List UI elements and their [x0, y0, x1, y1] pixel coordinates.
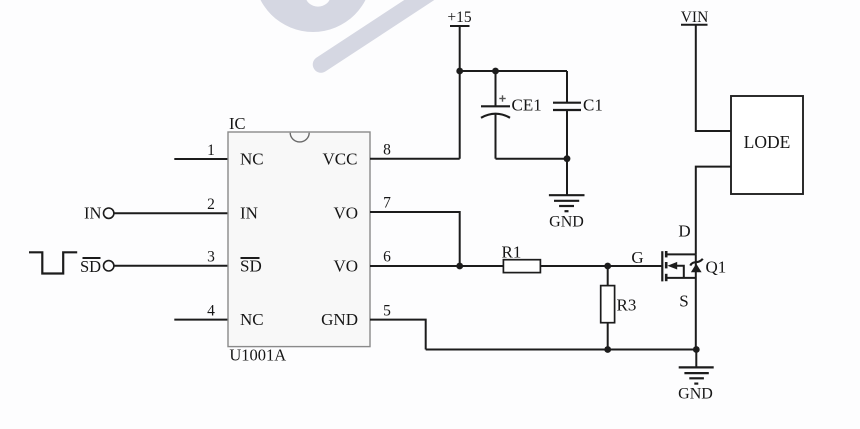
- value label R3: [617, 296, 637, 315]
- node junction pins 6-7: [456, 263, 463, 270]
- wire SD to pin 3: [114, 265, 228, 267]
- label D: [678, 222, 690, 241]
- wire +15 vertical: [459, 26, 461, 159]
- svg-text:IC: IC: [229, 114, 246, 133]
- svg-text:IN: IN: [240, 204, 258, 223]
- svg-text:GND: GND: [549, 214, 584, 231]
- pin label VO (pin 7): [333, 204, 358, 223]
- svg-text:U1001A: U1001A: [229, 346, 286, 365]
- capacitor C1: [553, 71, 581, 195]
- label SD (shutdown terminal, with overline): [80, 257, 101, 276]
- svg-text:IN: IN: [84, 204, 101, 223]
- svg-text:R3: R3: [617, 296, 637, 315]
- value label C1: [583, 96, 603, 115]
- node junction C1 bottom: [564, 155, 571, 162]
- pin number 6: [383, 249, 391, 266]
- pin label NC (pin 1): [240, 150, 264, 169]
- pin number 4: [207, 303, 215, 320]
- pin number 2: [207, 196, 215, 213]
- label LODE: [744, 132, 791, 152]
- IC U1001A body: [228, 132, 370, 347]
- ground symbol (bottom right): [678, 350, 714, 403]
- svg-text:Q1: Q1: [706, 258, 727, 277]
- resistor R3: [601, 266, 615, 350]
- wire pin 5 GND: [370, 320, 426, 350]
- pin number 1: [207, 142, 215, 159]
- resistor R1: [503, 260, 540, 273]
- label Q1: [706, 258, 727, 277]
- svg-text:D: D: [678, 222, 690, 241]
- svg-text:SD: SD: [80, 257, 101, 276]
- pin label VCC (pin 8): [323, 150, 358, 169]
- pin number 5: [383, 303, 391, 320]
- svg-text:VO: VO: [333, 257, 358, 276]
- svg-text:+15: +15: [447, 9, 471, 26]
- value label CE1: [512, 96, 542, 115]
- pin number 3: [207, 249, 215, 266]
- wire R1 to gate: [540, 265, 662, 267]
- wire pin 1 (NC): [174, 158, 228, 160]
- node junction at +15 branch: [456, 68, 463, 75]
- pin label VO (pin 6): [333, 257, 358, 276]
- node junction source-ground: [693, 346, 700, 353]
- svg-text:VCC: VCC: [323, 150, 358, 169]
- svg-text:2: 2: [207, 196, 215, 213]
- node junction CE1 top: [492, 68, 499, 75]
- svg-text:7: 7: [383, 195, 391, 212]
- svg-text:8: 8: [383, 142, 391, 159]
- svg-text:G: G: [631, 248, 643, 267]
- svg-text:CE1: CE1: [512, 96, 542, 115]
- label U1001A: [229, 346, 286, 365]
- svg-text:LODE: LODE: [744, 132, 791, 152]
- wire VIN to load: [696, 25, 731, 131]
- pin label NC (pin 4): [240, 310, 264, 329]
- wire pin 7 VO: [370, 212, 460, 266]
- wire IN to pin 2: [114, 212, 228, 214]
- svg-text:1: 1: [207, 142, 215, 159]
- svg-text:VIN: VIN: [681, 9, 709, 26]
- capacitor CE1 (electrolytic): [481, 71, 510, 159]
- wire pin 6 VO to R1: [370, 265, 503, 267]
- wire pin 4 (NC): [174, 319, 228, 321]
- node G junction: [604, 263, 611, 270]
- svg-text:VO: VO: [333, 204, 358, 223]
- wire capacitor top rail: [460, 70, 567, 72]
- value label R1: [502, 243, 522, 262]
- power terminal VIN: [681, 9, 709, 26]
- svg-text:6: 6: [383, 249, 391, 266]
- svg-text:R1: R1: [502, 243, 522, 262]
- svg-text:SD: SD: [240, 257, 262, 276]
- transistor Q1 (N-MOSFET): [662, 251, 703, 350]
- pin label GND (pin 5): [321, 310, 358, 329]
- node junction R3 bottom: [604, 346, 611, 353]
- terminal circle IN: [104, 208, 114, 218]
- svg-text:GND: GND: [678, 386, 713, 403]
- svg-text:5: 5: [383, 303, 391, 320]
- pin label IN (pin 2): [240, 204, 258, 223]
- power terminal +15: [447, 9, 471, 26]
- ground symbol (under C1): [549, 195, 585, 230]
- svg-text:S: S: [679, 292, 688, 311]
- watermark ring: [254, 0, 372, 32]
- svg-text:NC: NC: [240, 310, 264, 329]
- label IN (input terminal): [84, 204, 101, 223]
- svg-text:NC: NC: [240, 150, 264, 169]
- pulse waveform symbol: [29, 252, 77, 273]
- label IC: [229, 114, 246, 133]
- wire capacitor bottom rail: [496, 158, 568, 160]
- svg-text:3: 3: [207, 249, 215, 266]
- wire bottom ground rail: [426, 349, 697, 351]
- watermark slash: [321, 0, 433, 65]
- pin number 8: [383, 142, 391, 159]
- pin number 7: [383, 195, 391, 212]
- svg-text:C1: C1: [583, 96, 603, 115]
- label G: [631, 248, 643, 267]
- label S: [679, 292, 688, 311]
- svg-text:GND: GND: [321, 310, 358, 329]
- svg-text:4: 4: [207, 303, 215, 320]
- load box LODE: [731, 96, 803, 194]
- wire pin 8 VCC: [370, 158, 460, 160]
- wire load to drain: [696, 167, 731, 255]
- pin label SD (pin 3, with overline): [240, 257, 262, 276]
- terminal circle SD: [104, 261, 114, 271]
